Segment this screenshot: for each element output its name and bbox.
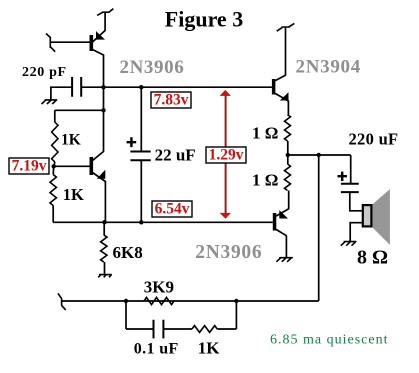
svg-text:0.1 uF: 0.1 uF [134,340,179,357]
break squiggle S3 (left of Q1 base) [46,34,55,52]
resistor R2 1K [50,175,56,206]
supply break squiggle S2 (top of Q4) [277,23,295,31]
node dot F1 [124,299,128,303]
wire Q3 collector vertical [285,236,287,258]
svg-text:220 uF: 220 uF [349,130,399,149]
svg-text:Figure 3: Figure 3 [165,7,243,32]
red arrow shaft (bias span) [225,93,227,215]
svg-text:2N3906: 2N3906 [120,57,185,78]
svg-text:1 Ω: 1 Ω [252,170,278,189]
wire parallel branch left vertical [125,301,127,329]
node dot A2 (22uF branch) [139,85,143,89]
wire R1 bottom lead [53,162,56,166]
wire left rail upper (Q1 collector to Q2 collector) [103,55,105,153]
break squiggle S4 (left end of feedback wire) [58,293,66,310]
ground G3 (Q3 collector) [276,258,292,262]
wire R3 bottom lead [104,262,106,274]
svg-text:1K: 1K [198,339,221,358]
wire Q3 collector diagonal [276,230,286,236]
wire Q1 collector diagonal [93,50,104,56]
wire Q2 emitter vertical [104,181,106,222]
wire parallel branch right vertical [235,301,237,329]
wire Q2 base lead [54,165,90,167]
wire R4 bottom lead [287,141,289,155]
wire Q1 emitter diagonal [93,31,106,43]
ground G1 (below C1) [42,100,58,104]
wire Q4 emitter diagonal [275,94,288,102]
svg-text:2N3904: 2N3904 [296,56,361,77]
resistor R1 1K [52,122,58,162]
voltage box 7.19v [9,158,49,175]
red arrow head down [220,213,231,219]
wire R3 top lead [103,222,105,235]
red arrow head up [220,90,231,96]
wire Q1 base lead [50,41,89,43]
ground G2 (below 6K8) [98,275,112,278]
node dot B2 (22uF branch) [139,220,143,224]
wire R2 bottom lead [52,206,54,223]
node dot A1 (rail / top wire) [101,85,105,89]
wire Q4 emitter vertical [287,101,289,115]
wire Q3 emitter diagonal [276,209,289,216]
resistor R4 1 ohm [285,115,291,141]
resistor R6 3K9 [144,297,174,304]
node dot B1 (rail tee) [102,220,106,224]
capacitor C2 22uF plates [130,152,150,161]
wire C3 bottom to speaker [350,192,363,211]
wire branch bottom right [217,328,236,330]
wire speaker lower stub to ground [350,223,362,242]
wire feedback bottom horizontal [62,300,319,302]
node dot (7.19v node) [52,164,56,168]
transistor Q4 base bar [272,79,276,95]
node dot F2 [234,299,238,303]
capacitor C3 220uF plates [341,184,359,192]
speaker driver rect [363,205,372,226]
svg-text:6K8: 6K8 [113,243,143,262]
svg-text:7.19v: 7.19v [12,158,47,175]
wire output node horizontal [288,154,351,156]
wire Q4 collector vertical [285,27,287,76]
svg-text:2N3906: 2N3906 [195,242,262,263]
ground G4 (speaker) [341,242,357,246]
wire C2 22uF top lead [140,87,142,151]
voltage box 6.54v [152,201,192,218]
resistor R5 1 ohm [285,164,291,191]
wire R5 top lead [287,155,289,164]
wire Q1 emitter vertical [104,12,106,31]
svg-text:1.29v: 1.29v [209,147,244,164]
wire R5 bottom / Q3 emitter vertical [288,191,290,210]
transistor Q1 emitter arrow (PNP) [96,31,105,39]
svg-text:220 pF: 220 pF [22,65,67,80]
svg-text:6.54v: 6.54v [155,201,190,218]
wire Q2 emitter diagonal [93,173,106,182]
svg-text:22 uF: 22 uF [155,146,196,165]
svg-text:1K: 1K [61,131,81,148]
node dot out2 (feedback tap) [317,153,321,157]
wire C4 to R7 [163,328,192,330]
svg-text:1K: 1K [63,185,84,204]
supply break squiggle S1 (top of Q1) [97,9,113,16]
svg-text:1 Ω: 1 Ω [252,123,278,142]
wire Q2 collector diagonal [93,152,104,161]
transistor Q2 emitter arrow [97,170,105,179]
transistor Q1 base bar [90,35,94,51]
capacitor C4 0.1uF plates [154,320,164,339]
transistor Q3 emitter arrow (PNP) [279,210,288,218]
transistor Q3 base bar [273,213,277,231]
wire C1 left lead [51,87,72,100]
svg-text:6.85 ma quiescent: 6.85 ma quiescent [270,333,388,348]
wire 1K top tee [55,109,104,111]
plus sign (C3 polarity) [338,172,347,181]
resistor R3 6K8 [101,235,107,262]
node dot A3 (1K tee on rail) [101,108,105,112]
wire R1 top lead [54,110,56,122]
transistor Q2 base bar [90,157,94,175]
resistor R7 1K [192,326,217,333]
wire top node A horizontal (C1 to Q4 base) [81,86,272,88]
speaker cone [372,189,390,245]
node dot out1 [286,153,290,157]
wire C3 top lead [350,155,352,184]
wire branch bottom left [126,328,154,330]
svg-text:8 Ω: 8 Ω [357,247,388,269]
wire feedback vertical [318,155,320,301]
plus sign (C2 polarity) [127,137,137,147]
transistor Q4 emitter arrow (NPN) [280,92,289,100]
voltage box 1.29v [206,147,246,164]
wire C2 bottom lead [140,160,142,222]
capacitor C1 220pF plates [72,77,81,97]
svg-text:3K9: 3K9 [144,278,174,297]
wire bottom node B horizontal [53,221,273,223]
svg-text:7.83v: 7.83v [154,92,189,109]
voltage box 7.83v [151,92,191,109]
wire R2 top lead [52,166,55,174]
wire Q4 collector diagonal [275,75,286,80]
